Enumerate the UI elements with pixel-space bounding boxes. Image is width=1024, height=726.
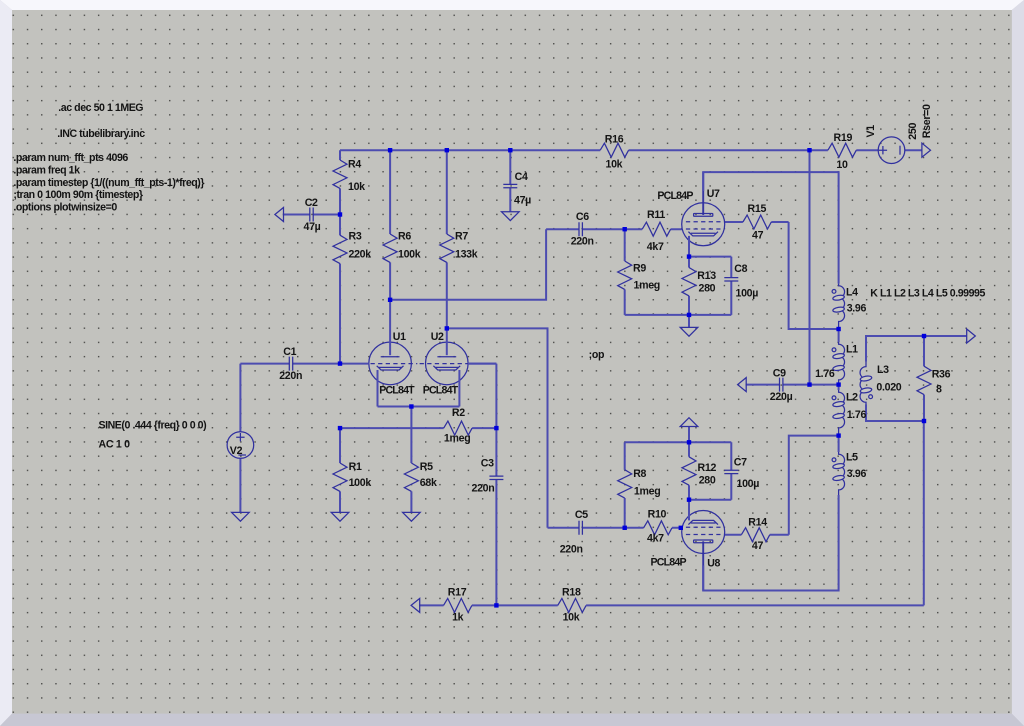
svg-text:R4: R4 — [348, 159, 361, 171]
svg-text:280: 280 — [699, 283, 716, 295]
node R36 bottom junction — [922, 419, 926, 423]
svg-text:PCL84P: PCL84P — [657, 190, 693, 202]
svg-text:8: 8 — [936, 384, 942, 396]
svg-text:100µ: 100µ — [736, 287, 759, 299]
svg-text:1meg: 1meg — [634, 486, 660, 498]
svg-text:R11: R11 — [647, 209, 665, 221]
svg-text:1.76: 1.76 — [847, 409, 867, 421]
pentode U8 — [651, 500, 725, 591]
resistor R16 — [600, 134, 628, 171]
svg-text:100k: 100k — [349, 477, 372, 489]
inductor L1 — [815, 342, 858, 385]
node L2 L5 junction — [836, 433, 840, 437]
svg-text:R15: R15 — [748, 203, 767, 215]
triode U2 — [420, 328, 497, 406]
svg-text:100µ: 100µ — [737, 478, 760, 490]
svg-text:R12: R12 — [698, 462, 717, 474]
svg-text:.ac dec 50 1 1MEG: .ac dec 50 1 1MEG — [58, 102, 143, 114]
wire V2 to ground — [239, 458, 241, 512]
node R13 ground rail junction — [687, 313, 691, 317]
resistor R4 — [333, 150, 365, 214]
node C6 R9 R11 junction — [623, 227, 627, 231]
svg-text:220n: 220n — [560, 544, 583, 556]
node R1 R2 junction — [338, 426, 342, 430]
capacitor C1 — [240, 346, 340, 382]
svg-text:C4: C4 — [515, 171, 528, 183]
voltage source V1 — [865, 125, 905, 164]
node R2 C3 junction — [494, 426, 498, 430]
svg-text:3.96: 3.96 — [847, 302, 867, 314]
capacitor C4 — [503, 150, 531, 212]
wire R14 to L2 L5 junction — [789, 436, 839, 535]
svg-text:PCL84P: PCL84P — [651, 556, 687, 568]
resistor R8 — [618, 442, 661, 528]
svg-text:10k: 10k — [563, 612, 580, 624]
svg-text:R5: R5 — [420, 461, 433, 473]
svg-text:250: 250 — [907, 123, 919, 140]
node rail R6 junction — [388, 148, 392, 152]
svg-text:220n: 220n — [472, 483, 495, 495]
svg-text:R2: R2 — [452, 407, 465, 419]
resistor R7 — [440, 150, 478, 328]
wire R15 to L4 L1 junction — [789, 222, 839, 329]
svg-text:10k: 10k — [606, 159, 623, 171]
svg-text:.param timestep {1/((num_fft_p: .param timestep {1/((num_fft_pts-1)*freq… — [13, 177, 204, 189]
wire U2 anode rail to C5 — [447, 328, 548, 527]
node U2 anode junction — [445, 326, 449, 330]
capacitor C5 — [548, 509, 625, 556]
resistor R15 — [725, 203, 789, 242]
triode U1 — [340, 300, 417, 407]
svg-text:R7: R7 — [455, 231, 468, 243]
svg-text:;op: ;op — [589, 349, 605, 361]
svg-text:C9: C9 — [773, 367, 786, 379]
node U8 cathode junction — [687, 498, 691, 502]
voltage source V2 — [227, 432, 254, 459]
svg-text:K L1 L2 L3 L4 L5 0.99995: K L1 L2 L3 L4 L5 0.99995 — [870, 288, 985, 300]
wire L3 bottom to R36 bottom — [866, 405, 924, 422]
capacitor C9 — [746, 367, 839, 403]
ground at V2 — [232, 512, 250, 521]
svg-text:100k: 100k — [398, 249, 421, 261]
svg-text:.param freq 1k: .param freq 1k — [13, 165, 80, 177]
svg-text:C2: C2 — [305, 197, 318, 209]
svg-text:4k7: 4k7 — [647, 241, 664, 253]
svg-text:47µ: 47µ — [304, 221, 321, 233]
inductor L2 — [832, 390, 866, 436]
svg-text:L3: L3 — [877, 364, 889, 376]
resistor R2 — [340, 407, 496, 445]
ground at R13 rail — [688, 315, 690, 328]
svg-text:1.76: 1.76 — [815, 368, 835, 380]
port arrow at C2 — [275, 208, 284, 222]
node U8 grid junction — [679, 526, 683, 530]
svg-text:280: 280 — [699, 475, 716, 487]
spice directive .param block — [13, 152, 204, 214]
port arrow feedback R17 — [411, 598, 420, 612]
svg-text:220µ: 220µ — [770, 391, 793, 403]
node rail R7 junction — [445, 148, 449, 152]
ground at R5 — [403, 512, 421, 521]
svg-text:PCL84T: PCL84T — [423, 384, 459, 396]
inductor L5 — [832, 451, 866, 495]
svg-text:R6: R6 — [398, 231, 411, 243]
wire U1 U2 cathode rail — [378, 406, 460, 408]
pentode U7 — [657, 172, 724, 257]
svg-text:47µ: 47µ — [514, 195, 531, 207]
inductor L3 — [860, 362, 902, 405]
svg-text:C6: C6 — [576, 211, 589, 223]
svg-text:10: 10 — [836, 159, 848, 171]
svg-text:Rser=0: Rser=0 — [921, 104, 933, 138]
svg-text:220k: 220k — [349, 249, 372, 261]
wire L3 top to output port — [866, 336, 967, 362]
svg-text:.INC tubelibrary.inc: .INC tubelibrary.inc — [57, 128, 145, 140]
resistor R14 — [725, 517, 789, 553]
resistor R13 — [682, 257, 716, 315]
resistor R3 — [333, 215, 371, 364]
node cathode rail R5 junction — [409, 404, 413, 408]
resistor R18 — [496, 587, 923, 624]
svg-text:R36: R36 — [932, 369, 951, 381]
svg-text:U2: U2 — [431, 331, 444, 343]
wire R8 R12 C7 top rail — [625, 441, 732, 443]
capacitor C2 — [283, 197, 340, 233]
svg-text:U7: U7 — [707, 188, 720, 200]
ground at C4 — [502, 212, 520, 221]
resistor R6 — [383, 150, 421, 300]
capacitor C8 — [724, 257, 758, 315]
resistor R10 — [625, 509, 683, 545]
svg-text:3.96: 3.96 — [847, 468, 867, 480]
svg-text:10k: 10k — [348, 181, 365, 193]
svg-text:L1: L1 — [846, 343, 858, 355]
wire U7 anode to L4 top — [703, 172, 838, 284]
svg-text:R1: R1 — [349, 461, 362, 473]
svg-text:R10: R10 — [648, 509, 667, 521]
wire coil column stubs — [838, 329, 840, 452]
svg-text:PCL84T: PCL84T — [379, 384, 415, 396]
resistor R12 — [682, 442, 716, 499]
node rail C4 junction — [508, 148, 512, 152]
svg-text:C8: C8 — [734, 263, 747, 275]
svg-text:4k7: 4k7 — [647, 533, 664, 545]
svg-text:C5: C5 — [575, 509, 588, 521]
svg-text:R17: R17 — [448, 587, 467, 599]
resistor R36 — [917, 336, 951, 421]
port arrow at C9 — [738, 378, 747, 392]
node U1 anode junction — [388, 298, 392, 302]
resistor R19 — [828, 132, 856, 171]
wire U1 anode rail to C6 — [390, 229, 546, 300]
wire U2 grid to C3 column — [468, 363, 496, 365]
svg-text:0.020: 0.020 — [876, 382, 901, 394]
svg-text:AC 1 0: AC 1 0 — [99, 438, 131, 450]
svg-text:R16: R16 — [605, 134, 624, 146]
svg-text:47: 47 — [752, 540, 764, 552]
svg-text:220n: 220n — [279, 370, 302, 382]
wire U8 anode to L5 bottom — [703, 495, 838, 591]
svg-text:SINE(0 .444 {freq} 0 0 0): SINE(0 .444 {freq} 0 0 0) — [99, 420, 207, 432]
svg-text:L2: L2 — [846, 392, 858, 404]
svg-text:C7: C7 — [734, 457, 747, 469]
svg-text:220n: 220n — [571, 236, 594, 248]
port arrow speaker output — [967, 329, 976, 343]
wire feedback from R36 bottom — [923, 421, 925, 605]
svg-text:U1: U1 — [393, 331, 406, 343]
svg-text:C1: C1 — [283, 346, 296, 358]
node B+ C9 junction — [807, 382, 811, 386]
wire U8 cathode junction to C7 — [689, 499, 731, 501]
svg-text:R14: R14 — [748, 517, 767, 529]
svg-text:47: 47 — [752, 230, 764, 242]
resistor R5 — [404, 407, 437, 513]
svg-text:1k: 1k — [452, 612, 464, 624]
ground up at R12 rail — [688, 427, 690, 443]
wire top supply rail — [340, 149, 922, 151]
svg-text:68k: 68k — [420, 477, 437, 489]
svg-text:.param num_fft_pts 4096: .param num_fft_pts 4096 — [13, 152, 128, 164]
node L1 L2 center tap junction — [836, 382, 840, 386]
capacitor C7 — [724, 442, 759, 499]
svg-text:R8: R8 — [633, 468, 646, 480]
capacitor C6 — [546, 211, 625, 248]
svg-text:R13: R13 — [697, 270, 716, 282]
node L4 L1 junction — [836, 327, 840, 331]
wire R9 R13 C8 ground rail — [625, 314, 732, 316]
node C3 R17 R18 junction — [494, 603, 498, 607]
svg-text:;tran 0 100m 90m {timestep}: ;tran 0 100m 90m {timestep} — [13, 189, 142, 201]
node C5 R8 R10 junction — [623, 526, 627, 530]
node rail B+ junction — [807, 148, 811, 152]
svg-text:R19: R19 — [834, 132, 853, 144]
svg-text:C3: C3 — [481, 458, 494, 470]
svg-text:L4: L4 — [846, 286, 858, 298]
svg-text:1meg: 1meg — [444, 433, 470, 445]
resistor R17 — [419, 587, 496, 624]
wire V2 to C1 — [239, 364, 241, 432]
node R12 top rail junction — [687, 440, 691, 444]
node C1 U1 grid junction — [338, 361, 342, 365]
node C2 R4 R3 junction — [338, 212, 342, 216]
wire B+ vertical to center tap — [809, 150, 811, 384]
resistor R9 — [618, 229, 660, 315]
svg-text:R18: R18 — [562, 587, 581, 599]
svg-text:L5: L5 — [846, 451, 858, 463]
capacitor C3 — [472, 364, 504, 606]
port arrow V1 output — [922, 143, 931, 157]
svg-text:133k: 133k — [455, 249, 478, 261]
node U7 cathode junction — [687, 254, 691, 258]
window bevel frame — [0, 0, 1024, 10]
wire U7 cathode junction to C8 — [689, 256, 731, 258]
svg-text:R9: R9 — [633, 263, 646, 275]
ground at R1 — [331, 512, 349, 521]
inductor L4 — [832, 284, 866, 329]
svg-text:V2: V2 — [230, 445, 243, 457]
svg-text:1meg: 1meg — [634, 280, 660, 292]
svg-text:.options plotwinsize=0: .options plotwinsize=0 — [13, 202, 117, 214]
resistor R11 — [625, 209, 682, 253]
svg-text:V1: V1 — [865, 125, 877, 138]
node R36 top junction — [922, 334, 926, 338]
resistor R1 — [333, 428, 371, 512]
svg-text:R3: R3 — [349, 231, 362, 243]
svg-text:U8: U8 — [707, 558, 720, 570]
